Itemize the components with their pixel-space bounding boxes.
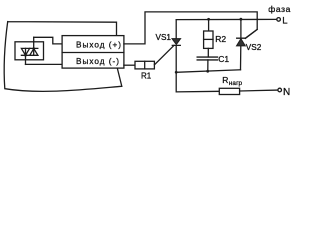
thyristor VS2 — [237, 19, 245, 69]
terminal L circle — [277, 18, 281, 22]
junction dot at optotriac top — [32, 47, 35, 50]
capacitor C1 — [197, 57, 217, 60]
svg-text:R1: R1 — [141, 71, 152, 80]
wire: optotriac top to Output(+) box — [34, 37, 62, 44]
svg-text:VS1: VS1 — [156, 33, 172, 42]
load resistor Rнагр — [219, 88, 239, 94]
terminal block divider — [62, 52, 124, 54]
device body (torn-edge fragment outline) — [4, 22, 122, 92]
wire: bottom rail down-left to load — [176, 72, 219, 92]
wire: Rнагр to N terminal — [240, 89, 278, 92]
wire: R2 to C1 — [207, 48, 209, 57]
svg-text:фаза: фаза — [268, 4, 291, 14]
bottom rail (VS1 cathode / C1 / VS2 anode) — [176, 70, 240, 73]
junction dot at optotriac bottom — [24, 54, 27, 57]
svg-text:нагр: нагр — [229, 80, 243, 87]
svg-text:L: L — [282, 15, 287, 26]
thyristor VS1 — [172, 20, 180, 73]
svg-text:VS2: VS2 — [246, 43, 262, 52]
svg-text:R2: R2 — [215, 34, 226, 44]
wire: Output(+) to VS2 gate (top run) — [124, 12, 257, 44]
terminal block Выход(+)/Выход(-) — [62, 36, 124, 69]
svg-text:N: N — [283, 87, 290, 98]
junction dot R2 top — [207, 18, 210, 21]
junction dot VS2 top — [240, 18, 243, 21]
svg-text:R: R — [222, 75, 228, 85]
wire: Output(-) to R1 — [124, 64, 135, 66]
optotriac top lead — [33, 37, 35, 55]
optotriac symbol: left triangle (conducts down) with cathode bar — [21, 48, 29, 55]
wire: R1 to VS1 gate (diagonal) — [154, 45, 174, 64]
junction dot C1 bottom — [206, 70, 209, 73]
terminal N circle — [278, 88, 282, 92]
optotriac symbol: right triangle (conducts up) with cathode bar — [30, 48, 38, 55]
junction dot bottom rail left — [175, 71, 178, 74]
wire: phase L rail — [176, 18, 277, 20]
optotriac bottom lead — [25, 48, 27, 64]
wire: optotriac bottom to Output(-) box — [26, 63, 63, 65]
svg-text:Выход (-): Выход (-) — [76, 57, 120, 66]
resistor R1 — [135, 61, 154, 69]
wire: C1 to bottom rail — [207, 60, 209, 71]
resistor R2 lead from L rail — [208, 19, 210, 31]
resistor R2 — [204, 31, 213, 48]
svg-text:C1: C1 — [218, 54, 229, 64]
svg-text:Выход (+): Выход (+) — [76, 41, 122, 50]
optotriac box U1 — [15, 42, 44, 60]
wire: VS2 gate diagonal — [245, 29, 257, 38]
